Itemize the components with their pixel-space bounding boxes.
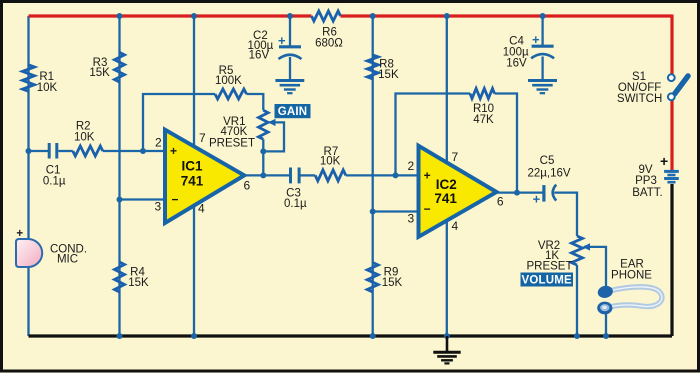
svg-text:VOLUME: VOLUME <box>521 274 572 286</box>
wire R3/R4 vertical divider <box>118 16 120 336</box>
resistor R5 100K <box>215 89 247 99</box>
svg-text:15K: 15K <box>89 67 110 79</box>
wire C5 to VR2 top <box>554 193 577 236</box>
resistor R1 10K <box>23 65 35 92</box>
preset VR1 470K <box>259 110 269 139</box>
svg-text:+: + <box>533 192 541 207</box>
svg-text:22µ,16V: 22µ,16V <box>527 168 570 180</box>
resistor R2 10K <box>73 146 103 156</box>
wire VR1 bottom to output node <box>262 139 264 175</box>
svg-text:15K: 15K <box>382 277 403 289</box>
resistor R6 680 ohm <box>312 11 341 21</box>
wire VR1 wiper loop <box>263 122 284 151</box>
svg-text:3: 3 <box>407 212 414 226</box>
svg-text:15K: 15K <box>128 277 149 289</box>
capacitor C5 22u electrolytic <box>544 185 556 202</box>
wire R5 to VR1 top <box>247 94 264 110</box>
svg-text:+: + <box>424 168 431 182</box>
earphone bud lower <box>597 302 612 315</box>
svg-text:BATT.: BATT. <box>632 187 662 199</box>
svg-text:7: 7 <box>199 131 206 145</box>
svg-text:16V: 16V <box>506 57 527 69</box>
svg-text:10K: 10K <box>320 156 341 168</box>
resistor R10 47K <box>470 89 495 99</box>
svg-text:470K: 470K <box>220 126 247 138</box>
svg-text:680Ω: 680Ω <box>315 38 343 50</box>
svg-text:15K: 15K <box>378 69 399 81</box>
node dots on ground rail <box>117 333 610 339</box>
svg-text:MIC: MIC <box>57 254 78 266</box>
svg-text:0.1µ: 0.1µ <box>43 175 66 187</box>
svg-text:10K: 10K <box>37 82 58 94</box>
svg-text:10K: 10K <box>74 132 95 144</box>
resistor R7 10K <box>315 170 346 181</box>
wire earphone to ground rail <box>605 313 607 336</box>
wire IC2 pin 7 <box>446 16 448 165</box>
svg-text:C5: C5 <box>540 155 555 167</box>
op-amp U1 IC1 741 <box>165 130 244 223</box>
svg-text:GAIN: GAIN <box>278 106 308 118</box>
wire IC1 feedback left leg <box>143 94 215 151</box>
resistor R4 15K <box>115 262 125 292</box>
capacitor C3 0.1u <box>291 168 300 184</box>
svg-text:47K: 47K <box>473 114 494 126</box>
svg-text:+: + <box>532 32 540 47</box>
capacitor C4 100u electrolytic <box>531 46 554 58</box>
svg-text:−: − <box>424 202 431 216</box>
svg-text:PRESET: PRESET <box>526 261 572 273</box>
svg-text:6: 6 <box>497 195 504 209</box>
resistor R9 15K <box>367 263 378 293</box>
switch S1 on/off <box>667 68 688 100</box>
wire IC1 output line with C3/R7 to IC2 pin 2 <box>244 174 289 176</box>
+9V red supply rail <box>29 15 673 171</box>
svg-text:6: 6 <box>243 179 250 193</box>
wire VR2 bottom to ground rail <box>576 265 578 336</box>
wire IC2 feedback left leg <box>396 94 471 176</box>
wire C1/R2 input line to IC1 pin 2 <box>29 150 49 152</box>
ground rail (0V, black) <box>29 334 673 337</box>
svg-text:3: 3 <box>155 200 162 214</box>
earphone cable <box>610 287 662 307</box>
battery BATT.1 9V PP3 <box>664 171 679 182</box>
earphone bud upper <box>597 284 614 299</box>
capacitor C2 100u electrolytic <box>279 47 302 59</box>
VR2 wiper arrowhead <box>583 243 591 250</box>
svg-text:2: 2 <box>407 159 414 173</box>
svg-text:741: 741 <box>434 191 457 206</box>
svg-text:2: 2 <box>155 136 162 150</box>
svg-text:+: + <box>278 33 286 48</box>
node junction dots <box>26 13 546 215</box>
svg-text:SWITCH: SWITCH <box>617 93 662 105</box>
GAIN label box <box>275 104 311 118</box>
VOLUME label box <box>521 273 574 287</box>
capacitor C1 0.1u <box>49 143 57 159</box>
wire left vertical rail <box>27 16 29 336</box>
svg-text:+: + <box>660 153 668 169</box>
svg-text:741: 741 <box>181 174 204 189</box>
svg-text:100K: 100K <box>215 75 242 87</box>
chassis ground at bottom centre <box>433 336 460 363</box>
wire IC2 pin 3 line <box>373 210 420 212</box>
resistor R3 15K <box>115 52 125 82</box>
ground below C2 <box>275 81 304 94</box>
svg-text:+: + <box>170 144 177 158</box>
wire C2 bottom leg to ground <box>289 57 291 79</box>
wire VR2 wiper to earphone <box>584 247 606 287</box>
wire IC1 pin 3 line <box>120 198 167 200</box>
resistor R8 15K <box>367 55 378 79</box>
wire R8/R9 vertical divider <box>372 16 374 336</box>
wire C2 top leg <box>289 16 291 46</box>
svg-text:PP3: PP3 <box>635 175 657 187</box>
battery negative wire <box>670 184 673 336</box>
svg-text:IC1: IC1 <box>181 159 203 174</box>
svg-text:0.1µ: 0.1µ <box>284 198 307 210</box>
wire C4 bottom leg to ground <box>541 57 543 80</box>
wire C4 top leg <box>541 16 543 45</box>
svg-text:IC2: IC2 <box>436 177 457 192</box>
svg-text:−: − <box>171 193 178 207</box>
svg-text:7: 7 <box>452 150 459 164</box>
condenser microphone <box>16 239 42 267</box>
wire IC1 pin 7 <box>193 16 195 150</box>
wire IC2 output to C5 <box>496 191 543 193</box>
ground below C4 <box>528 81 557 94</box>
svg-text:4: 4 <box>198 202 205 216</box>
op-amp U2 IC2 741 <box>419 146 497 237</box>
wire R10 right leg to output <box>495 94 518 193</box>
svg-text:PRESET: PRESET <box>209 138 255 150</box>
svg-text:16V: 16V <box>249 50 270 62</box>
preset VR2 1K <box>572 236 583 265</box>
svg-text:PHONE: PHONE <box>611 270 652 282</box>
svg-text:4: 4 <box>452 219 459 233</box>
wire IC1 pin 4 <box>193 201 195 336</box>
svg-text:+: + <box>16 228 23 240</box>
VR1 wiper arrowhead <box>268 119 276 126</box>
wire IC2 pin 4 <box>446 222 448 336</box>
